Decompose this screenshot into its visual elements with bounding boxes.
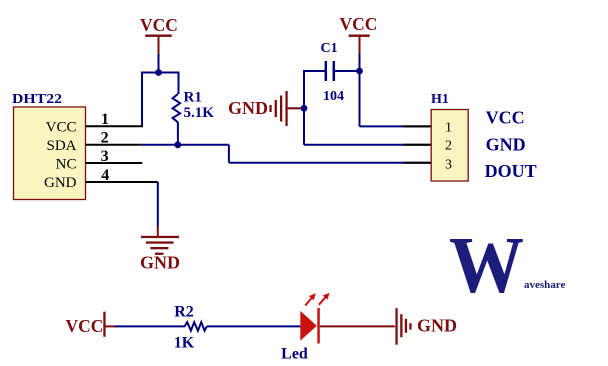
svg-text:VCC: VCC (140, 15, 178, 35)
svg-text:H1: H1 (431, 92, 449, 107)
wire R2 to LED (207, 325, 301, 327)
wire VCC stub down to junction (158, 54, 160, 73)
svg-text:VCC: VCC (340, 14, 378, 34)
wire SDA net to junction (142, 144, 229, 146)
svg-text:GND: GND (228, 98, 268, 118)
wire to C1 left plate (303, 70, 326, 72)
wire VCC to R2 (115, 325, 185, 327)
power ground GND (bottom right) (395, 308, 457, 345)
svg-text:C1: C1 (321, 41, 338, 56)
junction dot at VCC node (155, 69, 162, 76)
resistor R2 (185, 322, 207, 331)
wire VCC2 down (359, 71, 361, 126)
svg-text:GND: GND (44, 175, 77, 191)
logo Waveshare (449, 222, 565, 310)
wire DOUT run to H1 pin 3 (229, 162, 431, 164)
power port VCC (bottom) (66, 312, 116, 337)
connector H1 box (431, 110, 468, 182)
ground (earth) under DHT22 (140, 226, 180, 273)
svg-text:NC: NC (56, 157, 77, 173)
svg-text:R2: R2 (174, 304, 194, 321)
wire left branch down to pin 1 (141, 72, 143, 127)
svg-text:1: 1 (445, 120, 452, 135)
wire right branch down to R1 (178, 72, 180, 95)
pin stub H1-3 (404, 162, 432, 164)
svg-text:3: 3 (445, 158, 452, 173)
capacitor C1 (326, 61, 334, 81)
svg-text:5.1K: 5.1K (184, 105, 215, 121)
svg-text:GND: GND (417, 316, 457, 336)
wire VCC2 stub to junction (359, 54, 361, 71)
wire GND run to H1 pin 2 (304, 144, 431, 146)
component DHT22 box (14, 107, 86, 200)
svg-text:GND: GND (140, 253, 180, 273)
svg-text:VCC: VCC (486, 107, 525, 127)
junction dot on SDA at R1 (174, 141, 181, 148)
wire LED to GND (320, 325, 395, 327)
svg-text:VCC: VCC (46, 119, 77, 135)
svg-text:aveshare: aveshare (524, 279, 565, 291)
svg-text:GND: GND (486, 135, 526, 155)
power port VCC (top right) (340, 14, 378, 54)
svg-text:DHT22: DHT22 (12, 92, 62, 107)
LED diode (300, 293, 329, 344)
svg-text:2: 2 (445, 139, 452, 154)
svg-text:SDA: SDA (46, 138, 76, 154)
pin 2 stub (86, 144, 142, 146)
svg-text:Led: Led (281, 346, 308, 363)
pin stub H1-1 (404, 125, 432, 127)
svg-text:104: 104 (323, 89, 344, 104)
svg-text:DOUT: DOUT (485, 161, 537, 181)
pin 3 stub (NC) (86, 162, 143, 164)
junction dot VCC2 node (356, 68, 363, 75)
svg-text:1: 1 (101, 111, 109, 128)
wire C1 right plate to VCC node (334, 70, 360, 72)
pin 4 stub (86, 181, 158, 183)
junction dot GND node (301, 105, 308, 112)
power port VCC (top left) (140, 15, 178, 54)
wire SDA step down (228, 145, 230, 163)
resistor R1 (173, 94, 181, 122)
svg-text:W: W (449, 222, 524, 310)
svg-text:4: 4 (101, 167, 109, 184)
pin stub H1-2 (404, 144, 432, 146)
svg-text:VCC: VCC (66, 316, 104, 336)
wire GND node down (303, 108, 305, 145)
wire GND node up (303, 71, 305, 108)
wire VCC2 run to H1 pin 1 (360, 125, 432, 127)
svg-text:3: 3 (101, 148, 109, 165)
wire R1 bottom to SDA node (177, 122, 179, 145)
svg-text:2: 2 (101, 130, 109, 147)
pin 1 stub (86, 125, 144, 127)
wire junction horizontal (142, 72, 179, 74)
wire pin4 down to ground (157, 182, 159, 226)
power ground GND (middle) (228, 91, 304, 126)
svg-text:1K: 1K (174, 335, 195, 352)
svg-text:R1: R1 (184, 90, 202, 106)
